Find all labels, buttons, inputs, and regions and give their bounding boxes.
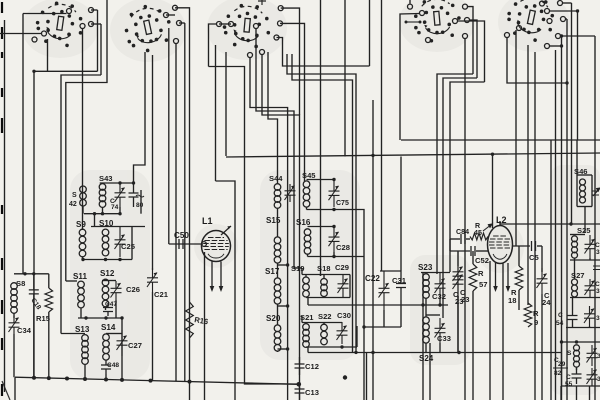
trimmer next to S44 bbox=[285, 184, 296, 202]
resistor R45 bbox=[470, 233, 488, 240]
wire chain bbox=[277, 304, 279, 325]
svg-text:S24: S24 bbox=[419, 354, 434, 363]
resistor R16 bbox=[186, 302, 194, 338]
svg-text:24: 24 bbox=[542, 298, 551, 307]
capacitor beside 80 bbox=[129, 183, 139, 207]
wire x492 down to L2 bbox=[492, 154, 494, 228]
stub bbox=[400, 300, 402, 327]
svg-text:C12: C12 bbox=[305, 362, 319, 371]
wire bbox=[537, 245, 542, 247]
variable capacitor C23 bbox=[453, 266, 464, 298]
socket V4 terminal S bbox=[426, 38, 431, 43]
wire route x256-x294 bbox=[256, 29, 294, 269]
wire vertical x176 bbox=[175, 44, 177, 382]
junction bbox=[560, 34, 563, 37]
bar S19 block bottom bbox=[306, 297, 350, 299]
scan edge dashes left border bbox=[1, 2, 3, 13]
bar bottom right block bbox=[562, 385, 600, 387]
trimmer beside S46 (cut at edge) bbox=[592, 188, 600, 196]
tube socket V2 (top view) bbox=[120, 0, 175, 56]
wire down x561 bbox=[560, 386, 562, 400]
capacitor C47 bbox=[103, 303, 113, 316]
socket V4 terminal SE bbox=[463, 34, 468, 39]
stub bbox=[574, 296, 576, 299]
stub bbox=[383, 310, 385, 327]
socket V1 terminal NE bbox=[89, 8, 94, 13]
stub bbox=[589, 296, 591, 299]
svg-text:3: 3 bbox=[596, 249, 600, 256]
bus junction x150.5 bbox=[149, 379, 153, 383]
junction y156 x373 bbox=[371, 154, 374, 157]
svg-text:L1: L1 bbox=[202, 216, 213, 226]
stub bbox=[301, 316, 303, 323]
wire V4 left down x400 bbox=[400, 14, 420, 141]
svg-text:C22: C22 bbox=[365, 274, 380, 283]
bar S24 top bbox=[426, 314, 440, 316]
resistor R15 bbox=[45, 288, 53, 312]
socket V2 terminal SE bbox=[174, 39, 179, 44]
drop to S9 bar bbox=[94, 214, 96, 227]
stub bbox=[105, 307, 107, 310]
tap junction bbox=[286, 263, 289, 266]
svg-text:C33: C33 bbox=[437, 334, 451, 343]
svg-text:S44: S44 bbox=[269, 174, 283, 183]
socket V5 terminal S bbox=[545, 44, 550, 49]
wire staircase to x352 bbox=[292, 54, 353, 352]
wire left margin vertical bbox=[4, 20, 6, 392]
L1 heater arrow left bbox=[211, 262, 213, 289]
V4 aux contact line bbox=[406, 21, 420, 23]
svg-text:57: 57 bbox=[479, 280, 487, 289]
socket V5 terminal SW bbox=[517, 26, 522, 31]
bar S21 block top bbox=[302, 322, 342, 324]
capacitor C5 bbox=[532, 241, 536, 251]
wire down bbox=[457, 296, 459, 353]
wire stub bbox=[166, 14, 175, 16]
block right side bbox=[349, 275, 351, 298]
wire to x595 bbox=[561, 35, 596, 37]
svg-text:C5: C5 bbox=[529, 253, 539, 262]
stub bbox=[307, 254, 309, 257]
stub bbox=[306, 207, 308, 210]
capacitor C84 bbox=[461, 234, 465, 244]
socket V1 pin terminal left2 bbox=[32, 37, 37, 42]
wire vertical x535 bbox=[534, 140, 536, 400]
wire stub bbox=[563, 2, 572, 4]
svg-text:C32: C32 bbox=[432, 292, 446, 301]
svg-text:45: 45 bbox=[474, 229, 482, 237]
wire route x244 to C13 bbox=[209, 67, 300, 385]
wire down x430 bbox=[429, 343, 431, 400]
wire down to C24 bbox=[541, 246, 543, 272]
svg-text:C13: C13 bbox=[305, 388, 319, 397]
svg-text:23: 23 bbox=[461, 295, 469, 304]
wire vertical x551 bbox=[550, 140, 552, 400]
wire vertical x516 bbox=[515, 30, 517, 246]
bar S21 block bottom bbox=[306, 346, 357, 348]
socket V4 terminal W bbox=[420, 11, 425, 16]
inductor S25 bbox=[572, 236, 578, 242]
wire down bbox=[472, 291, 474, 400]
socket V4 terminal NE bbox=[463, 4, 468, 9]
link from S21 block bbox=[307, 347, 309, 353]
svg-text:S: S bbox=[567, 350, 572, 357]
socket V1 pin terminal right bbox=[80, 24, 85, 29]
socket V2 terminal top-right bbox=[173, 5, 178, 10]
junction x364 y327 bbox=[362, 325, 365, 328]
bar S19 block top bbox=[302, 274, 350, 276]
junction y156 x492 bbox=[491, 153, 494, 156]
junction x567 bbox=[565, 81, 568, 84]
resistor R9 bbox=[524, 303, 532, 327]
variable capacitor C33 bbox=[435, 318, 446, 343]
wire right of 80 bbox=[140, 190, 142, 214]
wire vertical x528 to R9 bbox=[527, 45, 529, 305]
bar S10/C25 top bbox=[91, 226, 145, 228]
wire L2 top to right bbox=[500, 223, 600, 225]
socket V5 terminal NE bbox=[558, 1, 563, 6]
variable capacitor C32 bbox=[435, 273, 446, 299]
wire vertical x215 bbox=[215, 45, 217, 181]
bar S45 top bbox=[307, 179, 335, 181]
capacitor C13 bbox=[295, 382, 305, 400]
svg-text:55: 55 bbox=[565, 381, 573, 388]
stub bbox=[119, 207, 121, 214]
bar over S43 block bbox=[100, 182, 134, 184]
capacitor C55 bbox=[572, 368, 582, 384]
svg-text:3: 3 bbox=[596, 288, 600, 295]
capacitor C31 bbox=[396, 271, 406, 300]
socket V4 terminal top bbox=[408, 4, 413, 9]
wire vertical x184 bbox=[184, 23, 186, 381]
bus horizontal y140 bbox=[401, 139, 600, 141]
bus horizontal y352 bbox=[308, 352, 561, 354]
capacitor C18 bbox=[29, 274, 39, 310]
svg-text:S15: S15 bbox=[266, 216, 281, 225]
variable capacitor C28 bbox=[329, 227, 340, 253]
resistor R18 bbox=[515, 266, 523, 290]
wire route x304 bbox=[280, 23, 305, 181]
wire stub bbox=[179, 22, 185, 24]
socket V3 terminal W bbox=[217, 22, 222, 27]
socket V3 top index mark bbox=[258, 0, 266, 5]
wire chain end bbox=[277, 351, 279, 352]
wire vertical x369 from top bbox=[369, 0, 371, 66]
stub bbox=[425, 298, 427, 305]
wire S46 down to S25 bbox=[584, 207, 586, 234]
bus junction x189.5 bbox=[188, 380, 192, 384]
tube socket V3 (top view) bbox=[221, 2, 272, 49]
svg-text:9: 9 bbox=[534, 318, 538, 327]
wire vertical x345 bbox=[344, 0, 346, 157]
stub to S11 bbox=[66, 280, 77, 282]
bus junction x67 bbox=[65, 377, 69, 381]
inductor S23 bbox=[423, 274, 430, 281]
svg-text:29: 29 bbox=[558, 361, 566, 368]
tap junction bbox=[286, 347, 289, 350]
svg-text:C: C bbox=[595, 281, 600, 288]
wire vertical x381 from top bbox=[381, 0, 383, 271]
svg-text:S20: S20 bbox=[266, 314, 281, 323]
wire chain bbox=[574, 260, 576, 279]
resistor R57 bbox=[469, 264, 477, 291]
bus junction x122 bbox=[120, 378, 124, 382]
stub bbox=[333, 252, 335, 257]
junction x356 bbox=[354, 351, 357, 354]
wire down bbox=[576, 386, 578, 400]
wire staircase to x356 bbox=[287, 54, 356, 352]
wire into C52 bbox=[450, 250, 470, 252]
inductor S21 bbox=[303, 324, 310, 331]
junction bbox=[569, 222, 572, 225]
bar S14 to C27 bbox=[106, 333, 122, 335]
bar S12 to C26 bbox=[102, 280, 116, 282]
junction x459 bbox=[457, 351, 460, 354]
link bar y342 bbox=[562, 341, 600, 343]
wire stub bbox=[91, 23, 101, 25]
bar under C54 bbox=[566, 327, 600, 329]
svg-text:3: 3 bbox=[596, 315, 600, 322]
L1 grid cap terminal bbox=[202, 242, 207, 247]
bar S27 bottom bbox=[570, 297, 600, 299]
svg-text:18: 18 bbox=[508, 296, 516, 305]
stub bbox=[115, 300, 117, 318]
socket V1 terminal E bbox=[89, 22, 94, 27]
svg-text:S17: S17 bbox=[265, 267, 280, 276]
variable capacitor C21 bbox=[147, 268, 158, 292]
svg-text:74: 74 bbox=[111, 204, 119, 211]
tap stub bbox=[278, 264, 288, 266]
svg-text:C29: C29 bbox=[335, 263, 349, 272]
inductor S9 bbox=[79, 229, 86, 236]
capacitor C12 bbox=[295, 357, 305, 375]
wire vertical x465 bbox=[464, 39, 466, 400]
variable capacitor C30 bbox=[337, 322, 348, 344]
inductor S43 coil bbox=[99, 184, 106, 191]
wire vertical x97 bbox=[97, 10, 99, 71]
svg-text:C84: C84 bbox=[456, 228, 469, 236]
wire to R18 bbox=[518, 246, 520, 266]
capacitor C52 bbox=[471, 246, 475, 256]
L1 pin wire down x204 bbox=[204, 252, 206, 400]
svg-text:C52: C52 bbox=[475, 256, 489, 265]
S46 block bottom bar bbox=[577, 206, 592, 208]
wire V1 route to ground bus bbox=[34, 71, 98, 377]
wire vertical x555 bbox=[555, 50, 557, 400]
svg-text:C: C bbox=[595, 242, 600, 249]
variable capacitor C27 bbox=[117, 330, 128, 356]
variable capacitor C34 bbox=[9, 316, 20, 334]
tap stub bbox=[278, 305, 288, 307]
wire V1 right pin down to S9 bbox=[82, 29, 84, 231]
wire vertical x320 from top edge bbox=[320, 0, 322, 276]
inductor S14 bbox=[103, 334, 110, 341]
junction bbox=[560, 44, 563, 47]
inductor S15 bbox=[274, 237, 281, 244]
wire L2 grid to C5 bbox=[512, 245, 530, 247]
S46 block box bbox=[576, 140, 578, 207]
variable capacitor beside S25 bbox=[585, 235, 596, 258]
wire to R57 bbox=[472, 251, 474, 264]
svg-text:S16: S16 bbox=[296, 218, 311, 227]
L2 tuning arrow bbox=[483, 224, 492, 231]
valve L2 bbox=[488, 226, 513, 264]
svg-text:S22: S22 bbox=[318, 312, 332, 321]
socket V4 terminal E bbox=[465, 18, 470, 23]
stub bbox=[576, 367, 578, 370]
bus horizontal y156 sloped bbox=[226, 153, 600, 157]
inductor S44 bbox=[274, 184, 281, 191]
wire to x577 bbox=[550, 10, 578, 12]
bar C22/C31 bottom bbox=[364, 326, 401, 328]
svg-text:R: R bbox=[478, 269, 484, 278]
wire chain bbox=[277, 208, 279, 237]
wire stub bbox=[566, 18, 568, 20]
trimmer capacitor C72 bbox=[115, 183, 126, 207]
valve L1 bbox=[202, 231, 231, 262]
variable capacitor C25 bbox=[115, 227, 126, 257]
wire vertical x208 bbox=[209, 24, 217, 67]
socket V5 terminal E1 bbox=[545, 9, 550, 14]
inductor S13 bbox=[82, 335, 89, 342]
small capacitor at edge bbox=[593, 266, 600, 270]
bus junction x48.8 bbox=[47, 376, 51, 380]
socket V3 terminal SE bbox=[274, 35, 279, 40]
wire staircase x450 bbox=[450, 82, 485, 272]
bus end junction bbox=[297, 382, 302, 387]
wire into S13 bbox=[61, 333, 85, 335]
wire chain bbox=[277, 263, 279, 278]
L2 heater arrow left bbox=[495, 263, 497, 288]
L2 top stub bbox=[499, 221, 501, 226]
inductor S24 bbox=[423, 317, 430, 324]
wire x401 down bbox=[400, 157, 402, 272]
wire vertical x561 bbox=[561, 36, 563, 400]
bus junction x106 bbox=[104, 378, 108, 382]
wire down bbox=[33, 310, 35, 378]
stub bbox=[13, 313, 15, 318]
socket V1 pin terminal left bbox=[42, 31, 47, 36]
stub bbox=[80, 308, 82, 318]
tap junction bbox=[286, 304, 289, 307]
wire S23 line down bbox=[422, 273, 424, 400]
bar S11 block bottom bbox=[78, 317, 122, 319]
wire vertical x595 bbox=[594, 36, 596, 400]
block right side bbox=[131, 227, 133, 260]
wire C50 to L1 bbox=[169, 243, 203, 245]
bar S25 top bbox=[570, 234, 585, 236]
inductor S16 bbox=[304, 229, 311, 236]
stub bbox=[589, 326, 591, 328]
wire route x262-x299 bbox=[262, 55, 300, 400]
wire V2 pin down to C50 bbox=[168, 28, 170, 244]
svg-text:C34: C34 bbox=[17, 326, 32, 335]
inductor S20 bbox=[274, 325, 281, 332]
svg-text:S23: S23 bbox=[418, 263, 433, 272]
capacitor C50 bbox=[179, 239, 183, 249]
svg-text:C: C bbox=[558, 312, 563, 319]
bus drop at x15 bbox=[14, 377, 16, 400]
svg-text:R: R bbox=[533, 309, 539, 318]
stub bbox=[82, 257, 84, 260]
svg-text:C75: C75 bbox=[336, 200, 349, 207]
tap stub bbox=[278, 348, 288, 350]
bar S9/S10 bottom bbox=[83, 259, 132, 261]
L2 pin wire down x503 bbox=[502, 264, 504, 400]
variable capacitor beside C54 bbox=[584, 306, 595, 326]
wire staircase x437 bbox=[437, 74, 473, 274]
inductor S45 bbox=[303, 181, 310, 188]
wire staircase to x369 bbox=[277, 38, 370, 67]
L2 pin wire down x490 bbox=[489, 261, 491, 400]
stub bbox=[572, 325, 574, 328]
wire route top x299 bbox=[281, 8, 300, 115]
wire route to S13 bbox=[61, 75, 101, 334]
stub up bbox=[409, 0, 411, 4]
tube socket V5 (top view) bbox=[503, 0, 558, 45]
wire stub x473 bbox=[468, 7, 474, 74]
svg-text:C30: C30 bbox=[337, 311, 351, 320]
stub bbox=[574, 258, 576, 260]
inductor S12 bbox=[102, 279, 109, 286]
inductor S11 bbox=[78, 281, 85, 288]
socket V3 terminal S2 bbox=[260, 50, 265, 55]
svg-text:42: 42 bbox=[69, 201, 77, 208]
svg-text:S14: S14 bbox=[101, 323, 116, 332]
svg-text:C25: C25 bbox=[121, 242, 136, 251]
stub bbox=[425, 343, 427, 353]
variable capacitor beside S27 bbox=[585, 279, 596, 297]
svg-text:S12: S12 bbox=[100, 269, 115, 278]
svg-text:S45: S45 bbox=[302, 171, 316, 180]
svg-text:S18: S18 bbox=[317, 264, 331, 273]
link bbox=[425, 305, 427, 317]
svg-text:C: C bbox=[566, 374, 571, 381]
wire to R15 bbox=[48, 274, 50, 288]
capacitor C54 bbox=[568, 310, 578, 325]
socket V5 terminal E0 bbox=[547, 19, 552, 24]
socket V3 terminal E bbox=[278, 21, 283, 26]
block right side bbox=[356, 326, 358, 347]
wire route to S11 bbox=[66, 0, 107, 281]
svg-text:C27: C27 bbox=[128, 341, 142, 350]
svg-text:80: 80 bbox=[136, 202, 144, 209]
wire V2 pin down to S43 bar bbox=[134, 52, 146, 183]
socket V3 terminal S bbox=[248, 53, 253, 58]
variable capacitor beside S28 bbox=[587, 345, 598, 366]
ground bus (sloped) bbox=[15, 377, 299, 384]
svg-text:82: 82 bbox=[554, 370, 562, 377]
socket V5 terminal W bbox=[505, 33, 510, 38]
stub bbox=[84, 364, 86, 379]
inductor S17 bbox=[274, 278, 281, 285]
variable capacitor C29 bbox=[338, 275, 349, 297]
bar S8 block top bbox=[14, 273, 49, 275]
wire down to bus bbox=[13, 334, 15, 377]
tube socket V1 (top view) bbox=[33, 0, 86, 49]
socket V2 terminal E bbox=[177, 21, 182, 26]
inductor S10 bbox=[102, 229, 109, 236]
svg-text:C28: C28 bbox=[336, 243, 350, 252]
svg-text:S11: S11 bbox=[73, 272, 87, 281]
wire C52 to L2 bbox=[476, 250, 488, 252]
bar S45 bottom to x364 bbox=[307, 210, 365, 400]
variable capacitor C24 bbox=[537, 268, 548, 294]
svg-text:54: 54 bbox=[556, 320, 564, 327]
stub bbox=[105, 374, 107, 380]
squiggle above 80 bbox=[136, 195, 144, 197]
junction bbox=[32, 70, 35, 73]
